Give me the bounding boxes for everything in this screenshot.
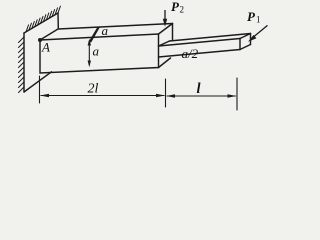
small bar front bottom edge	[159, 50, 241, 58]
dimension extension line left	[39, 76, 41, 103]
svg-text:1: 1	[256, 15, 261, 25]
small bar top-left depth edge	[159, 41, 170, 46]
dimension line l	[167, 95, 236, 97]
force P2 arrow	[163, 10, 167, 27]
beam end face top edge	[159, 24, 173, 35]
beam rear top edge	[58, 24, 173, 30]
arrowhead dim l left	[166, 94, 175, 98]
top face section mark a	[88, 27, 100, 42]
small bar end face right edge	[250, 34, 252, 45]
wall top hatching	[26, 6, 60, 32]
arrowhead dim 2l right	[156, 94, 165, 98]
force P1 arrow	[248, 25, 268, 41]
small bar end face bottom edge	[240, 45, 251, 50]
dimension arrow a (vertical on front face)	[88, 39, 91, 67]
beam front face	[40, 34, 159, 73]
svg-text:2: 2	[180, 5, 185, 15]
svg-text:l: l	[197, 81, 201, 97]
arrowhead dim l right	[228, 94, 237, 98]
svg-text:a: a	[93, 44, 100, 59]
svg-text:P: P	[247, 9, 256, 24]
beam top-left depth edge	[40, 29, 58, 40]
beam end face bottom edge	[159, 58, 171, 68]
svg-text:2l: 2l	[88, 82, 99, 97]
wall top diagonal edge	[24, 13, 58, 33]
svg-text:a: a	[102, 23, 109, 38]
small bar front right edge	[239, 39, 241, 50]
wall left vertical edge	[23, 33, 25, 92]
dimension extension line right	[236, 78, 238, 110]
svg-text:A: A	[41, 40, 50, 55]
wall bottom diagonal edge	[24, 72, 52, 92]
beam end face right edge	[172, 24, 174, 41]
node A dot	[38, 38, 42, 42]
arrowhead dim 2l left	[40, 94, 49, 98]
wall right vertical edge	[57, 13, 59, 28]
wall left hatching	[19, 37, 25, 93]
dimension line 2l	[41, 95, 164, 97]
small bar end face top edge	[240, 34, 251, 39]
dimension extension line middle	[165, 79, 167, 107]
svg-text:a/2: a/2	[182, 46, 199, 61]
small bar front top edge	[159, 39, 241, 47]
small bar rear top edge	[170, 34, 251, 42]
